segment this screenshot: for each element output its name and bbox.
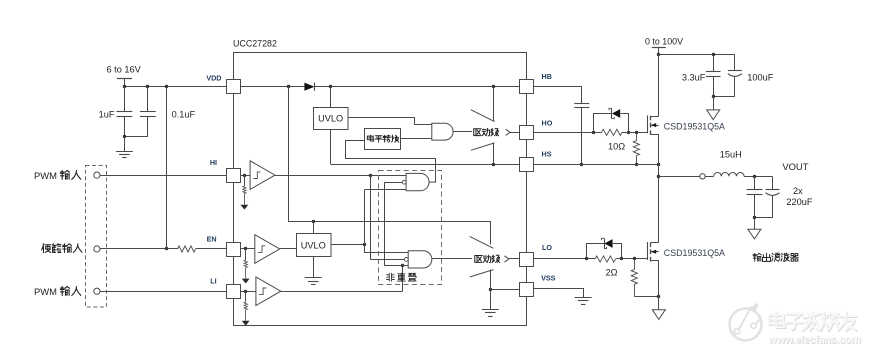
svg-text:6 to 16V: 6 to 16V xyxy=(107,65,142,75)
schmitt buffer LI xyxy=(240,291,256,293)
wire AND1 out to driver1 xyxy=(453,131,472,133)
svg-text:10Ω: 10Ω xyxy=(608,141,625,151)
svg-text:VSS: VSS xyxy=(541,274,556,283)
NAND gate N2 xyxy=(408,251,432,268)
wire HS internal rail xyxy=(331,164,520,166)
svg-text:www.elecfans.com: www.elecfans.com xyxy=(768,334,861,346)
terminal LI input xyxy=(94,288,100,294)
ground output filter xyxy=(754,218,756,229)
wire VSS external xyxy=(534,289,584,298)
svg-text:3.3uF: 3.3uF xyxy=(682,73,706,83)
diode D1 bootstrap xyxy=(304,83,314,91)
svg-text:2x: 2x xyxy=(793,186,803,196)
wire UVLO2 out to gates xyxy=(331,244,365,246)
pin HB xyxy=(520,80,534,94)
ground arrow HI xyxy=(241,205,249,210)
pin VSS xyxy=(520,283,534,297)
pin HI xyxy=(227,169,241,183)
wire LO to gate resistor xyxy=(534,258,595,260)
wire NAND2 out to driver2 xyxy=(432,258,472,260)
wire Q2 source to ground xyxy=(658,261,660,310)
IC U1 UCC27282 outline xyxy=(234,53,527,326)
pin EN xyxy=(227,243,241,257)
wire HS node external xyxy=(534,164,659,166)
pin LO xyxy=(520,253,534,267)
svg-text:LI: LI xyxy=(210,276,216,285)
node output cap bottom xyxy=(753,216,756,219)
capacitor C1 1uF xyxy=(124,87,126,112)
svg-text:HO: HO xyxy=(542,118,553,127)
label output filter (CJK) xyxy=(753,253,761,261)
node EN/bypass junction xyxy=(165,247,168,250)
wire LI riser to NAND2 input xyxy=(402,266,404,292)
node supply/C1 xyxy=(123,85,126,88)
wire VDD riser to LDO rail xyxy=(289,87,491,245)
svg-text:UVLO: UVLO xyxy=(318,114,343,124)
wire HO to gate resistor xyxy=(534,132,602,134)
pin HS xyxy=(520,158,534,172)
wire VDD rail internal xyxy=(240,86,304,88)
wire HI input to pin HI xyxy=(100,175,226,177)
capacitor 100uF polarized xyxy=(734,55,736,70)
watermark text CJK xyxy=(770,313,786,327)
wire UVLO1 to HS rail xyxy=(330,129,332,164)
terminal HI input xyxy=(94,172,100,178)
driver stage low (CJK label) xyxy=(470,236,494,248)
wire EN net to NAND1 input xyxy=(364,190,366,245)
wire LI feedback riser to NAND1 bubble xyxy=(384,182,386,266)
connector dashed box xyxy=(86,166,107,308)
svg-text:0 to 100V: 0 to 100V xyxy=(645,36,683,46)
wire VSS internal rail xyxy=(490,289,519,291)
resistor 2 ohm xyxy=(595,256,616,262)
wire EN input to resistor xyxy=(100,248,178,250)
wire driver2 bottom to VSS xyxy=(490,270,492,290)
wire tap to UVLO2 xyxy=(313,221,315,234)
watermark trace xyxy=(734,329,739,334)
wire HB rail to driver1 top xyxy=(493,87,495,121)
svg-text:1uF: 1uF xyxy=(99,109,115,119)
ground VSS internal xyxy=(482,309,499,311)
bubble N1 input xyxy=(402,180,406,184)
ground Q2 source xyxy=(652,310,665,320)
pin VDD xyxy=(227,80,241,94)
level shift block xyxy=(365,129,401,150)
svg-text:2Ω: 2Ω xyxy=(606,268,618,278)
svg-text:PWM: PWM xyxy=(34,170,57,181)
wire VSS ground stub xyxy=(490,289,492,309)
resistor 10 ohm xyxy=(602,129,623,135)
svg-text:HB: HB xyxy=(542,72,552,81)
capacitor bootstrap xyxy=(574,103,589,105)
wire HV to Q1 drain xyxy=(658,55,660,116)
AND gate A1 xyxy=(432,123,453,140)
svg-text:CSD19531Q5A: CSD19531Q5A xyxy=(664,122,725,132)
wire EN schmitt to UVLO2 xyxy=(280,248,296,250)
node HB driver tap xyxy=(492,85,495,88)
node HI feedback xyxy=(369,174,372,177)
wire cap bottoms HV xyxy=(713,96,735,98)
svg-text:PWM: PWM xyxy=(34,286,57,297)
capacitor output 1 xyxy=(754,176,756,189)
pin HO xyxy=(520,126,534,140)
svg-text:HS: HS xyxy=(542,150,552,159)
ground UVLO2 xyxy=(305,277,322,279)
wire UVLO2 ground stub xyxy=(313,257,315,278)
svg-text:100uF: 100uF xyxy=(747,73,773,83)
svg-text:15uH: 15uH xyxy=(720,149,742,159)
schmitt buffer EN xyxy=(240,248,255,250)
ground arrow LI xyxy=(242,321,250,326)
wire to Q1 gate xyxy=(622,132,648,134)
ground arrow EN xyxy=(242,279,250,284)
wire UVLO1 to AND1 input xyxy=(348,118,432,125)
wire bypass node down to EN net xyxy=(166,87,168,249)
wire driver1 to HO pin xyxy=(510,132,520,134)
ground HV filter xyxy=(713,96,715,110)
wire bootstrap to HS node xyxy=(581,108,583,165)
svg-text:LO: LO xyxy=(542,243,552,252)
capacitor C2 0.1uF xyxy=(147,87,149,112)
wire NAND1 out to level shift in xyxy=(346,141,436,183)
transistor Q1 CSD19531Q5A xyxy=(647,115,649,133)
wire level shift to AND1 input xyxy=(400,138,432,140)
resistor Q2 gate-source xyxy=(634,259,636,270)
wire LI schmitt to NAND2 xyxy=(281,291,403,293)
svg-text:CSD19531Q5A: CSD19531Q5A xyxy=(664,248,725,258)
node C2 tap xyxy=(146,85,149,88)
wire cap bottoms xyxy=(124,136,147,138)
wire EN net to NAND2 input xyxy=(365,246,409,253)
diode DL schottky branch xyxy=(587,244,605,259)
wire LI input to pin LI xyxy=(100,291,226,293)
svg-text:HI: HI xyxy=(210,158,217,167)
node UVLO1 tap xyxy=(329,85,332,88)
HV supply bar xyxy=(652,47,666,49)
UVLO block high side xyxy=(314,108,349,130)
node UVLO2 top tap xyxy=(312,220,315,223)
wire driver1 bottom to HS rail xyxy=(493,143,495,165)
wire VDD rail to pin xyxy=(124,86,226,88)
svg-text:UCC27282: UCC27282 xyxy=(233,38,277,48)
transistor Q2 CSD19531Q5A xyxy=(647,242,649,260)
resistor LI pulldown xyxy=(245,291,247,302)
svg-text:VDD: VDD xyxy=(206,73,221,82)
bubble N2 input xyxy=(404,258,408,262)
svg-text:0.1uF: 0.1uF xyxy=(172,109,196,119)
wire HI schmitt to NAND1 xyxy=(275,175,406,177)
node bypass tap xyxy=(165,85,168,88)
terminal EN input xyxy=(94,246,100,252)
wire to Q2 gate xyxy=(616,258,648,260)
pin LI xyxy=(227,285,241,299)
capacitor 3.3uF xyxy=(713,55,715,72)
dashed non-overlap box xyxy=(379,171,442,285)
driver stage high (CJK label) xyxy=(471,110,495,122)
svg-text:VOUT: VOUT xyxy=(782,161,808,172)
capacitor output 2 polarized xyxy=(772,177,774,190)
resistor EN series xyxy=(178,246,196,252)
wire inductor to VOUT node xyxy=(744,176,772,178)
schmitt buffer HI xyxy=(240,175,250,177)
wire HV rail xyxy=(657,53,660,56)
label non-overlap xyxy=(386,273,394,281)
ground VSS external xyxy=(575,297,592,299)
diode DH schottky branch xyxy=(594,114,612,133)
VDD supply bar xyxy=(117,78,132,80)
wire resistor to pin EN xyxy=(196,248,227,250)
svg-text:UVLO: UVLO xyxy=(301,241,326,251)
node VDD riser xyxy=(287,85,290,88)
label enable input xyxy=(42,244,51,253)
ground G1 xyxy=(116,151,133,153)
terminal switch node xyxy=(659,176,700,178)
wire driver2 to LO pin xyxy=(509,258,520,260)
svg-text:EN: EN xyxy=(207,235,217,244)
watermark logo circle xyxy=(730,309,762,341)
inductor 15uH xyxy=(705,176,714,178)
UVLO block low side xyxy=(297,234,332,257)
NAND gate N1 xyxy=(406,173,429,190)
resistor HI pulldown xyxy=(244,175,246,186)
wire VDD to UVLO1 xyxy=(330,87,332,108)
node driver1 bottom tap xyxy=(492,163,495,166)
resistor EN pulldown xyxy=(245,249,247,260)
wire HI feedback riser to NAND2 bubble xyxy=(370,175,372,259)
svg-text:220uF: 220uF xyxy=(786,197,812,207)
wire Q1 source / switch node xyxy=(658,134,660,243)
resistor Q1 gate-source xyxy=(636,132,638,140)
wire HB to bootstrap cap xyxy=(534,87,582,104)
